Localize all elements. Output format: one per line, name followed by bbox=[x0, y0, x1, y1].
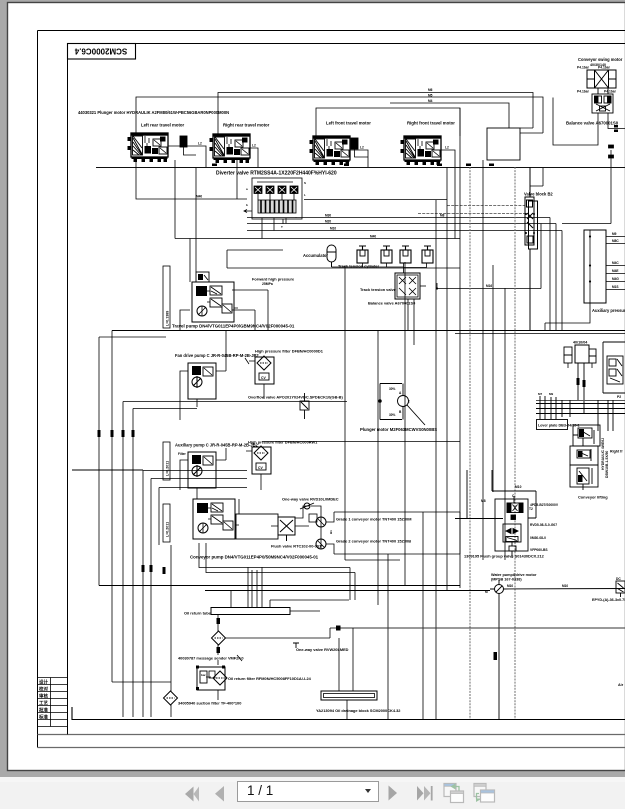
travel motor LF bbox=[310, 136, 351, 165]
svg-text:P2: P2 bbox=[617, 395, 621, 399]
wire motor LF out bbox=[350, 146, 368, 168]
svg-text:M40: M40 bbox=[370, 235, 376, 239]
check valve between front motors bbox=[351, 138, 368, 157]
svg-text:M10: M10 bbox=[562, 584, 568, 588]
svg-text:M4E: M4E bbox=[612, 269, 619, 273]
svg-text:Conveyor pump DN4/VTG011EP4P0/: Conveyor pump DN4/VTG011EP4P0/50M9NC4/V0… bbox=[190, 555, 319, 560]
svg-text:CV: CV bbox=[261, 376, 266, 380]
svg-text:M10: M10 bbox=[507, 584, 513, 588]
center vertical bundle bbox=[345, 108, 505, 719]
wire travel pump bbox=[190, 168, 460, 331]
svg-text:L=0.2011: L=0.2011 bbox=[166, 461, 170, 476]
svg-text:M6: M6 bbox=[428, 88, 433, 92]
svg-text:0M30-08-0: 0M30-08-0 bbox=[530, 536, 546, 540]
svg-text:Filter: Filter bbox=[178, 452, 187, 456]
svg-text:P4.1bar: P4.1bar bbox=[577, 66, 590, 70]
svg-text:Fan drive pump C JR-R-045B-RP-: Fan drive pump C JR-R-045B-RP-M-2B-JB2 bbox=[175, 353, 259, 358]
dashed buses to valve block bbox=[418, 206, 525, 214]
wire swing staircase bbox=[520, 98, 625, 146]
auxiliary pump bbox=[178, 448, 226, 499]
toolbar bbox=[0, 777, 625, 809]
grey dashed verticals bbox=[470, 167, 515, 719]
svg-text:One-way valve RVW20LMED: One-way valve RVW20LMED bbox=[296, 647, 349, 652]
svg-text:M9: M9 bbox=[549, 392, 553, 396]
conveyor label column bbox=[163, 504, 170, 542]
grade2 conveyor motor bbox=[316, 539, 326, 549]
grey long line y629 bbox=[338, 627, 625, 629]
svg-text:EPYD-(A)-36-3x0.75: EPYD-(A)-36-3x0.75 bbox=[592, 598, 625, 602]
title box SCM2000C6.4 bbox=[68, 44, 136, 60]
right edge component bbox=[616, 577, 625, 597]
travel motor RR bbox=[210, 134, 251, 163]
svg-text:审核: 审核 bbox=[39, 693, 48, 700]
svg-text:Overflow valve APO201Y024VDC.S: Overflow valve APO201Y024VDC.SPDECK10(GB… bbox=[248, 395, 343, 400]
svg-text:M30: M30 bbox=[325, 214, 331, 218]
conveyor swing motor bbox=[577, 66, 617, 94]
svg-text:Left front travel motor: Left front travel motor bbox=[326, 121, 371, 126]
svg-text:Grade 1 conveyor motor TNT400: Grade 1 conveyor motor TNT400 15Z30M bbox=[336, 517, 411, 522]
wire cylinders bbox=[332, 263, 427, 273]
svg-text:M8C: M8C bbox=[612, 239, 619, 243]
grade1 conveyor motor bbox=[316, 517, 326, 527]
conveyor pump box2 bbox=[236, 514, 278, 539]
svg-text:1309195 Flush group valve S014: 1309195 Flush group valve S01430DCX.212 bbox=[464, 554, 545, 559]
oil drainage block bbox=[321, 628, 377, 719]
svg-text:设计: 设计 bbox=[39, 679, 48, 686]
wire bus under diverter bbox=[136, 160, 562, 330]
svg-text:Flush valve RTC102-00-001*: Flush valve RTC102-00-001* bbox=[271, 544, 323, 549]
staircase wires left bbox=[72, 470, 247, 717]
wire y441 bbox=[262, 441, 460, 443]
one-way valve symbol bbox=[300, 503, 314, 509]
plunger motor center bbox=[379, 384, 425, 426]
bundle tick labels bbox=[98, 430, 166, 574]
svg-text:Auxiliary pressure: Auxiliary pressure bbox=[592, 308, 625, 313]
wire front motors box bbox=[316, 108, 460, 136]
svg-text:M4C: M4C bbox=[612, 261, 619, 265]
svg-text:L2: L2 bbox=[360, 146, 364, 150]
svg-text:L2: L2 bbox=[198, 142, 202, 146]
svg-text:Conveyor lifting: Conveyor lifting bbox=[578, 495, 608, 500]
svg-text:Right fr: Right fr bbox=[610, 450, 623, 454]
travel pump bbox=[192, 282, 238, 322]
svg-text:4PD5-B27/S0000V: 4PD5-B27/S0000V bbox=[530, 503, 559, 507]
svg-text:Grade 2 conveyor motor TNT400: Grade 2 conveyor motor TNT400 15Z30B bbox=[336, 539, 411, 544]
svg-text:P4.1bar: P4.1bar bbox=[598, 66, 611, 70]
svg-text:M16: M16 bbox=[486, 284, 492, 288]
long bus y167 bbox=[96, 167, 625, 169]
svg-text:Oil return tube: Oil return tube bbox=[184, 611, 212, 616]
wire conveyor pump drains bbox=[199, 543, 355, 600]
conveyor lifting column box3 bbox=[570, 465, 598, 490]
svg-text:30%: 30% bbox=[389, 387, 396, 391]
svg-text:Right rear travel motor: Right rear travel motor bbox=[223, 123, 270, 128]
wire top bus 1 bbox=[218, 93, 533, 135]
svg-text:M20: M20 bbox=[325, 220, 331, 224]
svg-text:B1: B1 bbox=[329, 530, 333, 534]
svg-text:P4.1bar: P4.1bar bbox=[604, 90, 617, 94]
svg-text:Water pump&drive motor: Water pump&drive motor bbox=[491, 573, 537, 577]
svg-text:DBW10B-1-5X/50: DBW10B-1-5X/50 bbox=[605, 451, 609, 478]
wire lifting motor down bbox=[578, 363, 584, 413]
svg-text:Right front travel motor: Right front travel motor bbox=[407, 121, 455, 126]
svg-text:M10: M10 bbox=[515, 485, 522, 489]
check valve between rear motors bbox=[180, 136, 196, 155]
svg-text:VFP060-BS: VFP060-BS bbox=[530, 548, 548, 552]
svg-text:M1S: M1S bbox=[612, 285, 619, 289]
bus labels2 bbox=[196, 195, 445, 239]
svg-text:Balance valve A670001S0: Balance valve A670001S0 bbox=[566, 121, 619, 126]
svg-text:44030321 Plunger motor HYDRAUL: 44030321 Plunger motor HYDRAULIK A2FM80/… bbox=[78, 110, 229, 115]
wire motor RR out bbox=[250, 144, 258, 168]
svg-text:T2: T2 bbox=[529, 507, 533, 511]
travel motor RF bbox=[401, 136, 442, 165]
bottom wire line bbox=[72, 707, 625, 720]
svg-text:34005940 suction filter TF-400: 34005940 suction filter TF-400*100 bbox=[178, 701, 241, 706]
svg-text:工艺: 工艺 bbox=[39, 700, 48, 707]
conveyor pump bbox=[193, 499, 239, 539]
svg-text:L: L bbox=[304, 193, 306, 197]
conveyor lifting motor bbox=[564, 345, 596, 368]
left vertical bundle bbox=[99, 331, 347, 718]
accumulator bbox=[327, 245, 336, 267]
water pump motor bbox=[490, 580, 625, 719]
svg-text:Travel pump DN4/VTG011EP4P0/GB: Travel pump DN4/VTG011EP4P0/GBM9NC4/V02F… bbox=[172, 324, 295, 329]
svg-text:L=0.1389: L=0.1389 bbox=[166, 311, 170, 326]
svg-text:M40: M40 bbox=[196, 195, 202, 199]
svg-text:P4.1bar: P4.1bar bbox=[577, 90, 590, 94]
title table bottom left bbox=[38, 59, 68, 735]
rotated text strip bbox=[601, 438, 609, 478]
suction filter diamond bbox=[164, 691, 178, 705]
wire right manifold feeders bbox=[530, 145, 614, 224]
last page button bbox=[417, 786, 433, 801]
svg-text:M8: M8 bbox=[481, 499, 486, 503]
conveyor lifting column box2 bbox=[570, 446, 598, 465]
box right of front motors bbox=[487, 128, 520, 160]
right manifold bbox=[584, 230, 625, 303]
svg-text:M9: M9 bbox=[612, 232, 617, 236]
inner drawing frame bbox=[68, 44, 625, 735]
svg-text:Auxiliary pump C JR-R-045B-RP-: Auxiliary pump C JR-R-045B-RP-M-2B-JB2 bbox=[175, 443, 259, 448]
flush valve bbox=[278, 514, 317, 541]
svg-text:25MPa: 25MPa bbox=[262, 282, 273, 286]
svg-text:M7: M7 bbox=[538, 392, 542, 396]
svg-text:L2: L2 bbox=[445, 146, 449, 150]
svg-text:b: b bbox=[246, 203, 248, 207]
wire motor LR out bbox=[168, 142, 206, 168]
flush group valve bbox=[495, 496, 528, 558]
svg-text:T: T bbox=[408, 400, 410, 404]
bus labels bbox=[428, 88, 433, 103]
svg-text:Diverter valve RTM2SS4A-1X220F: Diverter valve RTM2SS4A-1X220F2H440F%HYI… bbox=[216, 171, 337, 177]
svg-text:M10: M10 bbox=[330, 227, 336, 231]
oil return filter bbox=[196, 660, 227, 700]
svg-text:Accumulator: Accumulator bbox=[303, 253, 328, 258]
wire manifold down bbox=[218, 615, 338, 656]
first page button bbox=[185, 787, 199, 802]
track tension valve block bbox=[395, 273, 426, 299]
lever plate label bbox=[537, 420, 580, 430]
valve block B2 bbox=[525, 167, 538, 330]
svg-text:M8: M8 bbox=[440, 214, 445, 218]
filter diamond 1 bbox=[212, 631, 226, 645]
wire motor RF out bbox=[441, 146, 455, 239]
wire right manifold down bbox=[545, 303, 590, 330]
svg-text:标准: 标准 bbox=[38, 714, 48, 721]
svg-text:Left rear travel motor: Left rear travel motor bbox=[141, 123, 185, 128]
wires conveyor motors bbox=[239, 499, 460, 554]
prev page button bbox=[215, 786, 224, 802]
travel motor LR bbox=[128, 133, 169, 162]
svg-text:High pressure filter DFBN/HC00: High pressure filter DFBN/HC0000D1 bbox=[255, 349, 324, 354]
track tension cylinders bbox=[357, 246, 368, 263]
svg-text:SCM2000C6.4: SCM2000C6.4 bbox=[74, 47, 127, 56]
conveyor lifting column box1 bbox=[573, 425, 600, 446]
svg-text:校对: 校对 bbox=[39, 686, 48, 693]
svg-text:RVD5-08-S-0-G07: RVD5-08-S-0-G07 bbox=[530, 523, 557, 527]
outer frame bottom line bbox=[38, 747, 625, 749]
next page button bbox=[389, 786, 398, 801]
svg-text:S: S bbox=[304, 181, 306, 185]
high pressure filter 2 bbox=[246, 446, 271, 490]
svg-text:L2: L2 bbox=[252, 144, 256, 148]
wires track tension bbox=[408, 224, 541, 346]
travel pump label column bbox=[163, 266, 170, 328]
oil return manifold bbox=[211, 567, 349, 615]
svg-text:CV: CV bbox=[258, 466, 263, 470]
flush group wires bbox=[455, 470, 536, 519]
svg-text:M5: M5 bbox=[428, 94, 433, 98]
one-way valve RVW symbol bbox=[293, 643, 299, 648]
svg-text:L=0.2011: L=0.2011 bbox=[166, 522, 170, 537]
svg-text:High pressure filter DFBN/HC00: High pressure filter DFBN/HC000RW1 bbox=[248, 440, 318, 445]
balance valve top right bbox=[592, 88, 613, 113]
svg-text:YA213094 Oil drainage block SC: YA213094 Oil drainage block SCM2000CK4.3… bbox=[316, 708, 401, 713]
svg-text:Plunger motor M2F063MCWVS0N00B: Plunger motor M2F063MCWVS0N00BS bbox=[360, 427, 437, 432]
travel pump small top bbox=[196, 272, 209, 282]
inner frame bottom line bbox=[38, 734, 625, 736]
overflow valve symbol bbox=[300, 393, 309, 419]
fan drive pump bbox=[180, 330, 226, 420]
svg-text:批准: 批准 bbox=[39, 707, 48, 714]
svg-text:Oil return filter RFM0N/HC5008: Oil return filter RFM0N/HC5008FF10D1A/-L… bbox=[228, 676, 312, 681]
svg-text:40/10/04: 40/10/04 bbox=[573, 341, 588, 345]
svg-text:One-way valve RVD10L0MDEC: One-way valve RVD10L0MDEC bbox=[282, 497, 339, 502]
svg-text:Air: Air bbox=[618, 683, 624, 687]
bottom long bus bbox=[99, 586, 490, 591]
diverter valve assembly bbox=[244, 178, 306, 229]
wire top bus 2 bbox=[136, 97, 543, 133]
svg-text:Track tension valve: Track tension valve bbox=[360, 287, 397, 292]
aux label column bbox=[163, 442, 170, 480]
lever plate band bbox=[536, 396, 625, 431]
bus tick labels y167 bbox=[212, 164, 494, 167]
long bus y330 bbox=[112, 330, 625, 332]
svg-text:DC: DC bbox=[616, 577, 621, 581]
svg-text:40030787 message sender VMF2F.: 40030787 message sender VMF2F.0 bbox=[178, 656, 244, 661]
svg-text:30%: 30% bbox=[389, 413, 396, 417]
svg-text:(MPSB 167-0338): (MPSB 167-0338) bbox=[491, 578, 522, 582]
next view icon bbox=[474, 784, 495, 803]
svg-text:Forward high pressure: Forward high pressure bbox=[252, 277, 295, 282]
right cluster enclosure bbox=[603, 342, 625, 393]
svg-text:M4G: M4G bbox=[612, 277, 619, 281]
svg-text:M4: M4 bbox=[428, 99, 433, 103]
high pressure filter bbox=[245, 356, 274, 399]
wire top bus 3 bbox=[390, 103, 509, 128]
prev view icon bbox=[444, 784, 464, 803]
svg-text:T: T bbox=[281, 225, 283, 229]
svg-text:Conveyor swing motor: Conveyor swing motor bbox=[578, 57, 623, 62]
svg-text:Valve block B2: Valve block B2 bbox=[524, 192, 553, 197]
